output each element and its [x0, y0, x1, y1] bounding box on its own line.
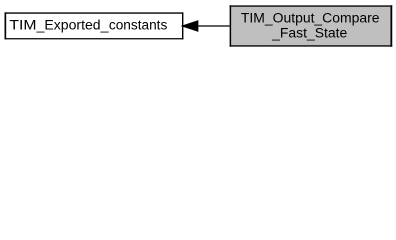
svg-text:constants: constants [109, 17, 168, 32]
svg-text:_Exported_: _Exported_ [36, 17, 109, 32]
svg-text:TIM_Output_Compare: TIM_Output_Compare [241, 10, 380, 25]
svg-text:TIM: TIM [9, 17, 36, 32]
svg-text:_Fast_State: _Fast_State [271, 25, 347, 40]
